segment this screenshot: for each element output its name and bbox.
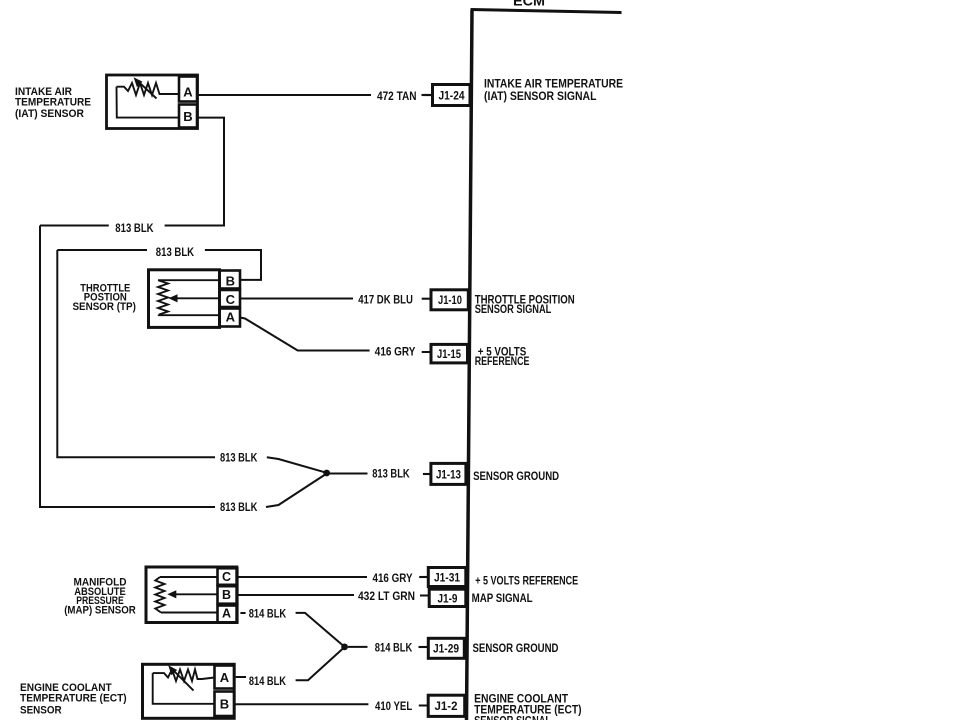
- terminal J1-31: [419, 568, 466, 587]
- +5V reference label (TP): [475, 347, 530, 368]
- svg-text:813 BLK: 813 BLK: [220, 500, 258, 514]
- wire 472 TAN from IAT pin A to J1-24: [197, 94, 433, 96]
- svg-text:C: C: [226, 292, 236, 307]
- IAT pin B box: [179, 105, 197, 128]
- svg-text:(IAT) SENSOR SIGNAL: (IAT) SENSOR SIGNAL: [484, 91, 597, 103]
- svg-text:814 BLK: 814 BLK: [249, 607, 287, 621]
- MAP sensor box: [146, 567, 237, 623]
- svg-text:J1-31: J1-31: [434, 573, 461, 585]
- junction node sensor ground (813 BLK): [323, 470, 330, 477]
- wire 814 BLK from junction to J1-29: [348, 646, 368, 648]
- svg-text:A: A: [222, 607, 231, 621]
- svg-text:(IAT) SENSOR: (IAT) SENSOR: [15, 108, 84, 120]
- svg-text:J1-10: J1-10: [438, 295, 462, 307]
- svg-text:814 BLK: 814 BLK: [249, 674, 286, 688]
- svg-text:A: A: [183, 85, 193, 100]
- svg-text:SENSOR: SENSOR: [20, 704, 62, 716]
- terminal J1-9: [429, 589, 466, 606]
- svg-text:813 BLK: 813 BLK: [372, 467, 410, 481]
- svg-text:B: B: [220, 697, 229, 712]
- svg-text:C: C: [222, 570, 231, 584]
- svg-text:B: B: [183, 109, 192, 124]
- junction node sensor ground (814 BLK): [341, 644, 348, 651]
- svg-text:TEMPERATURE (ECT): TEMPERATURE (ECT): [20, 692, 127, 704]
- svg-text:J1-15: J1-15: [437, 349, 461, 361]
- TP sensor box: [149, 270, 220, 328]
- svg-text:410 YEL: 410 YEL: [375, 699, 412, 713]
- svg-text:B: B: [222, 588, 231, 602]
- svg-text:REFERENCE: REFERENCE: [475, 356, 530, 368]
- terminal J1-13: [423, 463, 466, 484]
- svg-text:472 TAN: 472 TAN: [377, 89, 417, 103]
- svg-text:+ 5 VOLTS REFERENCE: + 5 VOLTS REFERENCE: [475, 576, 578, 588]
- ECT pin A box: [215, 666, 235, 689]
- svg-text:A: A: [220, 670, 230, 685]
- IAT sensor label: [15, 86, 91, 120]
- wire 416 GRY from MAP pin C to J1-31: [237, 576, 428, 578]
- svg-text:813 BLK: 813 BLK: [156, 245, 195, 259]
- terminal J1-29: [419, 638, 465, 658]
- IAT signal label: [484, 79, 623, 104]
- svg-text:A: A: [226, 310, 236, 325]
- IAT thermistor: [117, 80, 180, 98]
- svg-text:SENSOR SIGNAL: SENSOR SIGNAL: [474, 716, 551, 720]
- wire 432 LT GRN from MAP pin B to J1-9: [237, 594, 429, 597]
- wire 813 BLK from TP pin B (ground loop): [57, 250, 326, 473]
- svg-text:432 LT GRN: 432 LT GRN: [358, 589, 415, 603]
- svg-text:MAP SIGNAL: MAP SIGNAL: [472, 593, 533, 605]
- svg-text:TEMPERATURE: TEMPERATURE: [15, 97, 91, 109]
- wire 410 YEL from ECT pin B to J1-2: [234, 704, 428, 705]
- TP signal label: [475, 295, 575, 316]
- terminal J1-15: [431, 344, 468, 363]
- svg-text:416 GRY: 416 GRY: [375, 345, 416, 359]
- TP wiper arrowhead: [169, 294, 178, 302]
- wire 814 BLK from MAP pin A: [240, 613, 344, 647]
- IAT internal ground loop wire: [117, 87, 180, 118]
- MAP pin B box: [218, 586, 238, 604]
- wire 813 BLK from junction to J1-13: [330, 473, 368, 475]
- svg-text:813 BLK: 813 BLK: [220, 451, 258, 465]
- svg-text:B: B: [226, 274, 235, 289]
- ECT thermistor: [153, 669, 215, 691]
- TP pin B box: [219, 271, 240, 289]
- svg-text:SENSOR GROUND: SENSOR GROUND: [473, 643, 559, 655]
- IAT sensor box: [107, 75, 198, 129]
- svg-text:814 BLK: 814 BLK: [375, 641, 413, 655]
- ECT thermistor arrowhead: [168, 665, 177, 675]
- svg-text:J1-9: J1-9: [438, 593, 458, 605]
- svg-text:J1-13: J1-13: [436, 469, 461, 481]
- svg-text:SENSOR GROUND: SENSOR GROUND: [473, 471, 559, 483]
- terminal J1-2: [428, 695, 465, 716]
- svg-text:ECM: ECM: [513, 0, 545, 9]
- ECM enclosure line: [467, 10, 622, 720]
- TP potentiometer: [158, 280, 221, 315]
- terminal J1-10: [422, 290, 469, 310]
- TP sensor label: [73, 282, 137, 313]
- svg-text:INTAKE AIR TEMPERATURE: INTAKE AIR TEMPERATURE: [484, 79, 623, 91]
- ECT internal ground loop wire: [153, 673, 215, 704]
- terminal J1-24: [422, 85, 471, 106]
- svg-text:J1-2: J1-2: [435, 701, 458, 713]
- ECT pin B box: [215, 692, 235, 717]
- ECT sensor label: [20, 682, 127, 717]
- wire 417 DK BLU from TP pin C to J1-10: [240, 298, 353, 300]
- MAP pin C box: [218, 568, 238, 585]
- IAT thermistor arrowhead: [134, 77, 143, 87]
- svg-text:417 DK BLU: 417 DK BLU: [358, 293, 413, 307]
- svg-text:SENSOR SIGNAL: SENSOR SIGNAL: [475, 304, 552, 316]
- wire 814 BLK from ECT pin A: [236, 647, 345, 680]
- ECT signal label: [474, 694, 582, 720]
- svg-text:813 BLK: 813 BLK: [115, 221, 154, 235]
- svg-text:SENSOR (TP): SENSOR (TP): [73, 301, 137, 313]
- TP pin C box: [219, 290, 240, 307]
- IAT pin A box: [179, 77, 197, 102]
- ECT sensor box: [143, 664, 235, 718]
- wire 813 BLK from IAT pin B (ground loop): [40, 118, 327, 507]
- MAP sensor label: [64, 576, 136, 616]
- MAP wiper arrowhead: [167, 590, 176, 598]
- MAP potentiometer: [155, 577, 217, 613]
- wire 416 GRY from TP pin A to J1-15: [240, 318, 431, 353]
- svg-text:(MAP) SENSOR: (MAP) SENSOR: [64, 604, 136, 616]
- MAP pin A box: [218, 606, 238, 623]
- svg-text:J1-24: J1-24: [439, 91, 466, 103]
- svg-text:J1-29: J1-29: [433, 644, 459, 656]
- TP pin A box: [219, 309, 240, 327]
- svg-text:416 GRY: 416 GRY: [373, 571, 413, 585]
